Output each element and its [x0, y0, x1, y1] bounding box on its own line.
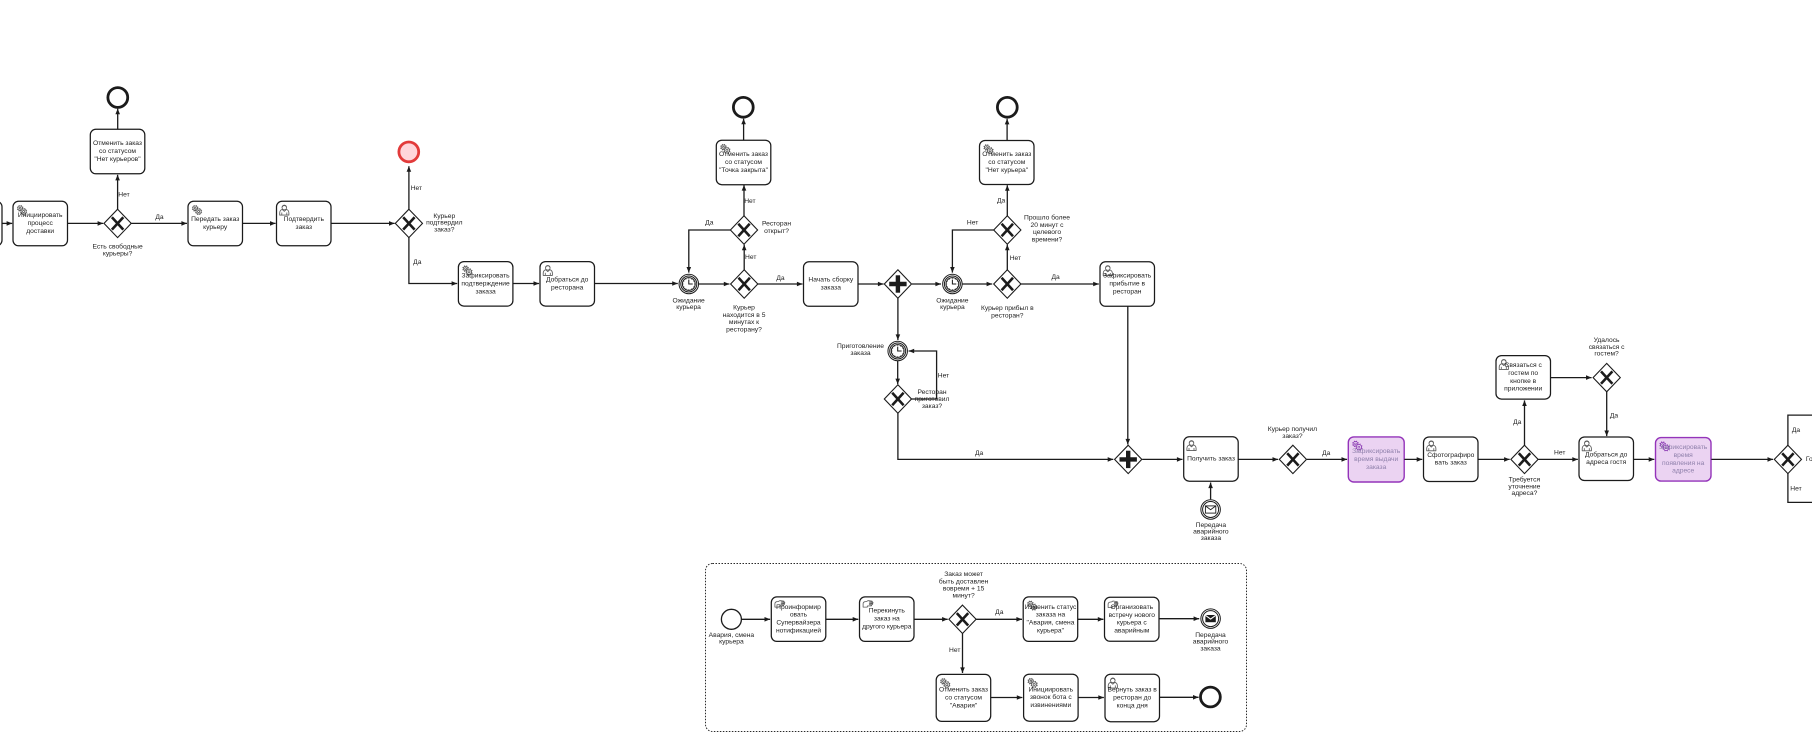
label: Есть свободные курьеры?: [92, 243, 142, 258]
wire: G6 Нет loop to timer3: [950, 230, 994, 273]
svg-text:заказ?: заказ?: [434, 226, 455, 233]
label: Нет (G7 loop): [938, 372, 949, 379]
task: Изменить статус заказа на Авария, смена курьера: [1023, 597, 1077, 642]
svg-text:курьера: курьера: [676, 304, 701, 311]
svg-text:Нет: Нет: [744, 198, 755, 205]
svg-text:Да: Да: [1792, 427, 1801, 434]
label: Да (G6 up): [997, 197, 1006, 204]
wire: G1 Нет up: [115, 175, 120, 210]
event: end: курьер не подтвердил (red): [399, 142, 419, 162]
event: end: точка закрыта: [733, 97, 753, 117]
svg-text:курьеры?: курьеры?: [103, 251, 133, 258]
wire: T4 to T5: [513, 281, 539, 286]
wire: into Инициировать процесс доставки: [2, 221, 12, 226]
task: Получить заказ: [1184, 437, 1239, 481]
svg-text:Да: Да: [155, 214, 164, 221]
wire: timer1 to G3: [699, 282, 730, 287]
gateway: Ресторан приготовил заказ?: [884, 385, 911, 413]
wire: G8 to purple1: [1307, 457, 1347, 462]
svg-text:Отменить заказ: Отменить заказ: [982, 151, 1031, 158]
svg-text:заказа: заказа: [475, 288, 496, 295]
event: end: заказ возвращён: [1201, 687, 1221, 707]
wire: P1 down to timer2: [896, 298, 901, 340]
task: Передать заказ курьеру: [188, 201, 243, 246]
gateway: Удалось связаться с гостем?: [1593, 363, 1620, 391]
label: Ресторан открыт?: [762, 221, 791, 235]
svg-text:Ресторан: Ресторан: [762, 221, 791, 228]
svg-text:Отменить заказ: Отменить заказ: [719, 151, 768, 158]
label: Передача аварийного заказа (catch): [1193, 522, 1229, 542]
label: Да (G7 long): [975, 450, 984, 457]
svg-text:со статусом: со статусом: [99, 148, 136, 155]
svg-text:минут?: минут?: [953, 593, 975, 600]
event: message catch: Передача аварийного заказа: [1201, 500, 1221, 520]
wire: TB1 to TB2: [826, 617, 859, 622]
label: Ресторан приготовил заказ?: [915, 389, 950, 410]
label: Ожидание курьера (2): [936, 297, 968, 311]
label: Да (G4 left): [705, 220, 714, 227]
gateway: Заказ может быть доставлен вовремя + 15 минут?: [949, 605, 976, 633]
label: Да (G10 down): [1610, 413, 1619, 420]
svg-text:Перекинуть: Перекинуть: [869, 608, 906, 615]
svg-text:появления на: появления на: [1662, 460, 1705, 467]
svg-text:Да: Да: [413, 259, 422, 266]
task: Связаться с гостем по кнопке в приложении: [1496, 356, 1551, 400]
svg-text:ресторан до: ресторан до: [1113, 695, 1151, 702]
gateway: Курьер подтвердил заказ?: [395, 209, 422, 237]
svg-text:Да: Да: [975, 450, 984, 457]
wire: timer3 to G5: [962, 282, 992, 287]
svg-text:"Точка закрыта": "Точка закрыта": [719, 167, 769, 174]
wire: G9 Да up to T12: [1522, 400, 1527, 445]
event: end: нет курьера: [997, 97, 1017, 117]
svg-text:Супервайзера: Супервайзера: [776, 619, 821, 627]
task: Добраться до ресторана: [540, 262, 595, 307]
svg-text:прибытие в: прибытие в: [1109, 280, 1145, 288]
label: Авария, смена курьера: [709, 632, 755, 646]
svg-text:Зафиксировать: Зафиксировать: [1659, 444, 1708, 451]
label: Нет (G11 down): [1790, 485, 1801, 492]
svg-text:вовремя + 15: вовремя + 15: [943, 586, 985, 593]
svg-text:процесс: процесс: [28, 220, 54, 227]
label: Курьер получил заказ?: [1268, 426, 1317, 440]
svg-text:ресторана: ресторана: [551, 284, 584, 291]
task: Инициировать процесс доставки: [13, 201, 68, 246]
svg-text:заказ?: заказ?: [1282, 433, 1303, 440]
svg-text:Подтвердить: Подтвердить: [284, 216, 325, 223]
wire: T5 to timer1: [595, 281, 678, 286]
gateway: Ресторан открыт?: [730, 216, 757, 244]
wire: G2 Да down-right: [409, 237, 457, 286]
wire: T9 down to P2: [1126, 306, 1131, 444]
svg-text:Изменить статус: Изменить статус: [1025, 604, 1077, 611]
task: Начать сборку заказа: [804, 262, 859, 307]
event: start: Авария, смена курьера: [721, 609, 741, 629]
label: Нет (G9 right): [1554, 449, 1565, 456]
svg-text:звонок бота с: звонок бота с: [1030, 693, 1072, 701]
task: Сфотографировать заказ: [1424, 437, 1479, 482]
wire: TB5 to TB6: [991, 695, 1023, 700]
wire: T2 to T3: [243, 221, 276, 226]
wire: T12 to G10: [1551, 375, 1592, 380]
svg-text:заказ?: заказ?: [922, 403, 943, 410]
gateway: Курьер находится в 5 минутах к ресторану?: [731, 270, 758, 298]
label: Ожидание курьера (1): [673, 297, 705, 311]
wire: msg catch up to T10: [1208, 483, 1213, 500]
svg-text:конца дня: конца дня: [1117, 702, 1148, 709]
svg-text:курьера: курьера: [719, 639, 744, 646]
svg-text:время выдачи: время выдачи: [1354, 456, 1398, 463]
label: Нет (G3 up): [745, 254, 756, 261]
svg-text:времени?: времени?: [1032, 236, 1063, 243]
gateway: Курьер получил заказ?: [1279, 445, 1306, 473]
event: timer: Ожидание курьера (2): [943, 274, 963, 294]
label: Нет (G6 left): [967, 220, 978, 227]
svg-text:Нет: Нет: [745, 254, 756, 261]
gateway: parallel split: [884, 270, 911, 298]
svg-text:время: время: [1674, 452, 1694, 459]
svg-text:вать заказ: вать заказ: [1435, 460, 1467, 467]
svg-text:гостем по: гостем по: [1508, 370, 1538, 377]
svg-text:Есть свободные: Есть свободные: [92, 243, 142, 251]
svg-text:Сфотографиро: Сфотографиро: [1427, 452, 1474, 459]
wire: G3 Нет up to G4: [742, 245, 747, 271]
svg-text:Зафиксировать: Зафиксировать: [462, 273, 511, 280]
label: Приготовление заказа: [837, 343, 884, 357]
label: Нет (G2 up): [411, 185, 422, 192]
svg-text:нотификацией: нотификацией: [776, 627, 821, 635]
label: Нет (G4 up): [744, 198, 755, 205]
wire: T10 to G8: [1238, 457, 1278, 462]
svg-text:Прошло более: Прошло более: [1024, 214, 1070, 222]
label: Да (G5 right): [1051, 274, 1060, 281]
wire: G9 Нет to T13: [1538, 457, 1578, 462]
wire: T7 to P1: [859, 282, 884, 287]
label: Удалось связаться с гостем?: [1589, 337, 1625, 358]
svg-text:ресторан: ресторан: [1113, 288, 1142, 295]
task: Зафиксировать подтверждение заказа: [458, 262, 513, 307]
label: Нет (G1 up): [118, 192, 129, 199]
wire: purple1 to T11: [1404, 457, 1422, 462]
svg-text:открыт?: открыт?: [764, 228, 789, 235]
svg-text:гостем?: гостем?: [1594, 351, 1619, 358]
svg-text:Заказ может: Заказ может: [944, 571, 983, 578]
label: Да (G3 right): [776, 275, 785, 282]
task: Проинформировать Супервайзера нотификацией: [771, 597, 826, 642]
svg-text:адреса гостя: адреса гостя: [1586, 459, 1626, 466]
label: Да (G9 up): [1513, 419, 1522, 426]
label: Да (G2 down): [413, 259, 422, 266]
svg-text:"Авария, смена: "Авария, смена: [1027, 620, 1075, 627]
wire: timer2 to G7: [895, 361, 900, 384]
svg-text:Организовать: Организовать: [1110, 604, 1153, 611]
svg-text:Нет: Нет: [1554, 449, 1565, 456]
svg-text:Нет: Нет: [949, 647, 960, 654]
task: Инициировать звонок бота с извинениями: [1024, 674, 1079, 721]
svg-text:Курьер: Курьер: [733, 305, 755, 312]
wire: G10 Да down to T13: [1604, 391, 1609, 436]
svg-text:быть доставлен: быть доставлен: [939, 577, 989, 585]
wire: G5 Да to T9: [1021, 282, 1099, 287]
wire: to end 1: [115, 109, 120, 130]
svg-text:Да: Да: [1610, 413, 1619, 420]
svg-text:заказа: заказа: [1200, 645, 1221, 652]
task: Отменить заказ со статусом Нет курьера: [980, 141, 1035, 185]
svg-text:20 минут с: 20 минут с: [1031, 222, 1065, 229]
wire: G3 Да to T7: [758, 282, 803, 287]
label: Да (G1 right): [155, 214, 164, 221]
wire: G11 Да up-right offscreen: [1788, 415, 1812, 446]
svg-text:Нет: Нет: [938, 372, 949, 379]
svg-text:адреса?: адреса?: [1511, 490, 1537, 497]
task: Зафиксировать прибытие в ресторан: [1100, 262, 1155, 307]
svg-text:курьера: курьера: [940, 304, 965, 311]
svg-text:курьера с: курьера с: [1117, 620, 1147, 627]
wire: G2 Нет up to red end: [407, 166, 412, 209]
task: partial task at left edge: [0, 201, 2, 246]
svg-text:Ресторан: Ресторан: [917, 389, 946, 396]
svg-text:заказа: заказа: [1366, 464, 1387, 471]
svg-text:Зафиксировать: Зафиксировать: [1352, 448, 1401, 455]
wire: P1 to timer3: [912, 282, 941, 287]
svg-text:приложении: приложении: [1504, 386, 1542, 393]
svg-text:минутах к: минутах к: [729, 319, 759, 326]
svg-text:встречу нового: встречу нового: [1109, 612, 1156, 619]
svg-text:Получить заказ: Получить заказ: [1187, 456, 1235, 463]
gateway: гость дома?: [1774, 445, 1801, 473]
svg-text:заказа: заказа: [1201, 535, 1222, 542]
svg-text:Инициировать: Инициировать: [18, 212, 63, 219]
gateway: Есть свободные курьеры?: [104, 209, 131, 237]
svg-text:со статусом: со статусом: [725, 159, 762, 166]
label: Курьер прибыл в ресторан?: [981, 304, 1034, 319]
svg-text:кнопке в: кнопке в: [1510, 378, 1537, 385]
wire: TB3 to TB4: [1078, 617, 1104, 622]
label: Прошло более 20 минут с целевого времени?: [1024, 214, 1070, 244]
svg-text:Нет: Нет: [1790, 485, 1801, 492]
svg-text:заказа на: заказа на: [1036, 612, 1066, 619]
svg-text:Передать заказ: Передать заказ: [191, 216, 239, 223]
svg-text:"Авария": "Авария": [950, 702, 978, 709]
label: Требуется уточнение адреса?: [1508, 476, 1540, 497]
label: Нет (G5 up): [1010, 255, 1021, 262]
svg-text:"Нет курьера": "Нет курьера": [985, 167, 1028, 174]
svg-text:извинениями: извинениями: [1030, 702, 1071, 709]
task: Вернуть заказ в ресторан до конца дня: [1105, 674, 1160, 722]
svg-text:"Нет курьеров": "Нет курьеров": [94, 156, 141, 163]
svg-text:Вернуть заказ в: Вернуть заказ в: [1108, 687, 1158, 694]
svg-text:курьера": курьера": [1037, 628, 1065, 635]
wire: G11 Нет down-right offscreen: [1788, 473, 1812, 502]
wire: G7 Да to P2: [898, 413, 1113, 462]
svg-text:целевого: целевого: [1033, 229, 1061, 236]
wire: T11 to G9: [1478, 457, 1510, 462]
svg-text:Добраться до: Добраться до: [1585, 450, 1628, 458]
wire: T8 to end 3: [1005, 119, 1010, 141]
svg-text:заказа: заказа: [850, 350, 871, 357]
svg-text:Курьер получил: Курьер получил: [1268, 426, 1317, 433]
svg-text:Да: Да: [1322, 450, 1331, 457]
wire: G5 Нет up to G6: [1005, 245, 1010, 271]
wire: G7 Нет loop to timer2: [909, 349, 937, 399]
svg-text:Да: Да: [776, 275, 785, 282]
wire: GB1 Нет down to TB5: [960, 633, 965, 673]
label: Передача аварийного заказа (throw): [1193, 632, 1229, 652]
wire: T1 to G1: [68, 221, 104, 226]
label: Да (GB1 right): [995, 609, 1004, 616]
task: Перекинуть заказ на другого курьера: [860, 597, 915, 642]
wire: TB4 to msg throw: [1159, 616, 1199, 621]
wire: TB2 to GB1: [914, 617, 948, 622]
svg-text:Нет: Нет: [411, 185, 422, 192]
gateway: Курьер прибыл в ресторан?: [994, 270, 1021, 298]
svg-text:Курьер прибыл в: Курьер прибыл в: [981, 304, 1034, 312]
svg-text:Да: Да: [705, 220, 714, 227]
svg-text:Да: Да: [997, 197, 1006, 204]
svg-text:со статусом: со статусом: [988, 159, 1025, 166]
label: Заказ может быть доставлен вовремя + 15 минут?: [939, 571, 989, 600]
task: Подтвердить заказ: [277, 201, 332, 246]
svg-text:Добраться до: Добраться до: [546, 275, 589, 283]
svg-text:Гостю: Гостю: [1806, 456, 1812, 463]
label: label fragment right of G11: [1806, 456, 1812, 463]
task: Зафиксировать время выдачи заказа: [1348, 437, 1404, 482]
svg-text:Начать сборку: Начать сборку: [808, 276, 853, 284]
subprocess frame: Авария, смена курьера: [706, 564, 1247, 732]
label: Курьер подтвердил заказ?: [426, 213, 463, 234]
event: message throw: Передача аварийного заказа: [1201, 609, 1221, 629]
svg-text:находится в 5: находится в 5: [723, 312, 766, 319]
gateway: Требуется уточнение адреса?: [1511, 445, 1538, 473]
task: Отменить заказ со статусом Авария: [936, 674, 991, 721]
event: end: после отмены Нет курьеров: [108, 88, 128, 108]
wire: T13 to purple2: [1634, 457, 1654, 462]
label: Да (G11 up): [1792, 427, 1801, 434]
wire: G1 to Передать заказ курьеру: [131, 221, 187, 226]
task: Добраться до адреса гостя: [1579, 437, 1634, 481]
svg-text:Проинформир: Проинформир: [776, 604, 821, 611]
wire: G4 Нет up to T6: [742, 185, 747, 216]
svg-text:аварийным: аварийным: [1114, 627, 1150, 635]
svg-text:доставки: доставки: [26, 228, 54, 235]
svg-text:Отменить заказ: Отменить заказ: [93, 140, 142, 147]
task: Отменить заказ со статусом Точка закрыта: [716, 140, 771, 185]
gateway: parallel join: [1115, 445, 1142, 473]
gateway: Прошло более 20 минут с целевого времени?: [994, 216, 1021, 244]
svg-text:Нет: Нет: [967, 220, 978, 227]
wire: G6 Да up to T8: [1005, 185, 1010, 216]
event: timer: Ожидание курьера (1): [679, 274, 699, 294]
svg-text:Связаться с: Связаться с: [1505, 362, 1543, 369]
svg-text:со статусом: со статусом: [945, 694, 982, 701]
task: Отменить заказ со статусом Нет курьеров: [90, 129, 145, 174]
svg-text:овать: овать: [790, 612, 808, 619]
task: Организовать встречу нового курьера с аварийным: [1105, 597, 1160, 641]
svg-text:заказа: заказа: [821, 285, 842, 292]
svg-text:подтверждение: подтверждение: [461, 280, 510, 287]
wire: TB7 to endB: [1160, 695, 1199, 700]
svg-text:Инициировать: Инициировать: [1029, 686, 1074, 693]
svg-text:заказ на: заказ на: [874, 616, 900, 623]
label: Да (G8 right): [1322, 450, 1331, 457]
svg-text:курьеру: курьеру: [203, 224, 228, 231]
svg-text:другого курьера: другого курьера: [862, 624, 912, 631]
wire: G4 Да loop to timer1: [687, 230, 731, 273]
label: Нет (GB1 down): [949, 647, 960, 654]
svg-text:Зафиксировать: Зафиксировать: [1103, 273, 1152, 280]
svg-text:адресе: адресе: [1672, 468, 1694, 475]
svg-text:ресторану?: ресторану?: [726, 326, 762, 333]
wire: T6 to end 2: [741, 119, 746, 141]
wire: GB1 Да to TB3: [976, 617, 1022, 622]
wire: purple2 to G11: [1711, 457, 1773, 462]
svg-text:Отменить заказ: Отменить заказ: [939, 687, 988, 694]
svg-text:Да: Да: [1513, 419, 1522, 426]
wire: startB to TB1: [741, 617, 770, 622]
svg-text:ресторан?: ресторан?: [991, 312, 1024, 319]
wire: P2 to T10: [1142, 457, 1182, 462]
wire: T3 to G2: [331, 221, 395, 226]
svg-text:Нет: Нет: [1010, 255, 1021, 262]
task: Зафиксировать время появления на адресе: [1656, 438, 1712, 482]
svg-text:заказ: заказ: [296, 224, 313, 231]
label: Курьер находится в 5 минутах к ресторану?: [723, 305, 766, 334]
svg-text:Да: Да: [995, 609, 1004, 616]
svg-text:Да: Да: [1051, 274, 1060, 281]
wire: TB6 to TB7: [1078, 695, 1104, 700]
svg-text:Нет: Нет: [118, 192, 129, 199]
event: timer: Приготовление заказа: [888, 341, 908, 361]
